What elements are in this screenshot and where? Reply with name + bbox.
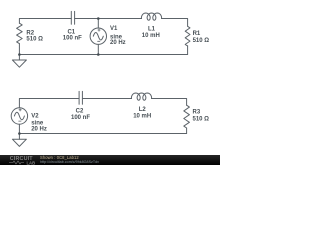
svg-text:10 mH: 10 mH bbox=[142, 33, 160, 39]
wire top rail right segment (loop 2) bbox=[152, 99, 187, 106]
wire ground stem (loop 1) bbox=[18, 55, 20, 61]
svg-text:10 mH: 10 mH bbox=[133, 113, 151, 119]
inductor L2 bbox=[131, 93, 151, 100]
wire ground stem (loop 2) bbox=[18, 134, 20, 140]
voltage source V1 bbox=[90, 28, 106, 44]
svg-text:V2: V2 bbox=[31, 114, 39, 120]
svg-text:sine: sine bbox=[31, 120, 44, 126]
wire top rail left segment (loop 1) bbox=[19, 19, 71, 24]
V2 minus sign bbox=[19, 120, 21, 122]
svg-text:510 Ω: 510 Ω bbox=[26, 36, 43, 42]
svg-text:20 Hz: 20 Hz bbox=[110, 40, 126, 46]
svg-text:100 nF: 100 nF bbox=[71, 115, 90, 121]
junction node (top rail / V1) bbox=[97, 17, 100, 20]
svg-text:510 Ω: 510 Ω bbox=[193, 116, 210, 122]
wire bottom rail (loop 2) bbox=[19, 133, 186, 135]
svg-text:http://circuitlab.com/c/9hk8G8: http://circuitlab.com/c/9hk8G8SzTdv bbox=[40, 160, 99, 164]
svg-text:100 nF: 100 nF bbox=[63, 36, 82, 42]
V1 plus sign bbox=[98, 29, 100, 31]
svg-text:20 Hz: 20 Hz bbox=[31, 127, 47, 133]
resistor R1 bbox=[185, 26, 190, 46]
junction node (bottom rail / V1) bbox=[97, 53, 100, 56]
resistor R2 bbox=[17, 23, 23, 43]
ground symbol (loop 2) bbox=[12, 139, 26, 146]
inductor L1 bbox=[141, 13, 161, 20]
wire top rail right segment (loop 1) bbox=[162, 19, 188, 27]
ground symbol (loop 1) bbox=[12, 60, 26, 67]
junction node (bottom rail / ground 2) bbox=[18, 132, 21, 135]
wire top rail middle segment (loop 2) bbox=[82, 98, 131, 100]
CircuitLab logo resistor squiggle bbox=[9, 161, 24, 164]
svg-text:R1: R1 bbox=[193, 31, 201, 37]
wire V2 bottom lead bbox=[18, 124, 20, 133]
V2 sine symbol bbox=[14, 112, 24, 120]
svg-text:V1: V1 bbox=[110, 26, 118, 32]
wire R3 bottom lead bbox=[186, 128, 188, 133]
voltage source V2 bbox=[11, 108, 27, 124]
svg-text:L1: L1 bbox=[148, 27, 156, 33]
capacitor C2 bbox=[79, 91, 82, 104]
wire V2 top lead bbox=[19, 99, 79, 108]
wire bottom rail (loop 1) bbox=[19, 54, 187, 56]
wire top rail middle segment (loop 1) bbox=[75, 18, 142, 20]
capacitor C1 bbox=[71, 11, 74, 24]
V1 minus sign bbox=[98, 40, 100, 42]
resistor R3 bbox=[184, 105, 190, 128]
V2 plus sign bbox=[19, 109, 21, 111]
svg-text:510 Ω: 510 Ω bbox=[193, 38, 210, 44]
CircuitLab logo wordmark bbox=[10, 156, 35, 165]
wire R1 bottom lead bbox=[187, 46, 189, 55]
wire V1 top lead bbox=[97, 19, 99, 29]
svg-text:C2: C2 bbox=[76, 109, 84, 115]
junction node (bottom rail / ground 1) bbox=[18, 53, 21, 56]
wire R2 bottom lead bbox=[18, 44, 20, 55]
svg-text:L2: L2 bbox=[139, 107, 147, 113]
wire V1 bottom lead bbox=[97, 44, 99, 54]
svg-text:R3: R3 bbox=[193, 109, 201, 115]
V1 sine symbol bbox=[93, 32, 103, 40]
svg-text:LAB: LAB bbox=[27, 160, 36, 165]
